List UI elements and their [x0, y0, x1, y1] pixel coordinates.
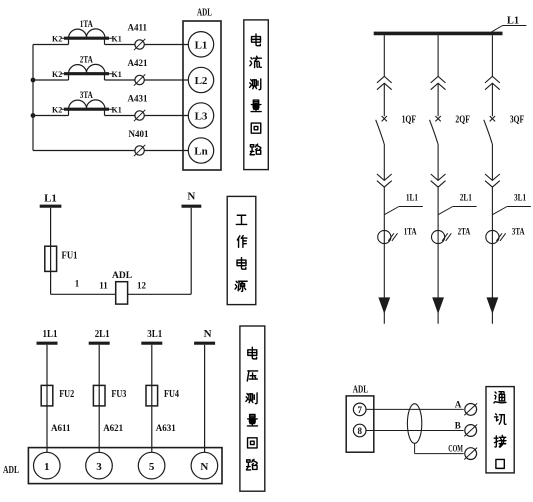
svg-text:2TA: 2TA — [80, 56, 93, 66]
wire A421 — [105, 79, 189, 81]
pin 8 — [353, 424, 366, 437]
svg-text:12: 12 — [137, 281, 147, 291]
svg-text:1TA: 1TA — [404, 227, 417, 237]
svg-text:N: N — [204, 328, 212, 340]
wire N401 — [144, 150, 188, 152]
terminal COM — [464, 448, 477, 460]
svg-text:B: B — [455, 421, 461, 431]
terminal A421 — [134, 74, 145, 85]
svg-text:COM: COM — [448, 444, 463, 454]
svg-text:K2: K2 — [52, 34, 62, 43]
wire feeder 1 upper — [383, 35, 385, 76]
drawout contact (top) feeder 1 — [377, 76, 392, 89]
svg-text:K1: K1 — [112, 34, 122, 43]
svg-text:K1: K1 — [112, 70, 122, 79]
load arrow feeder 2 — [433, 298, 443, 313]
svg-text:L2: L2 — [195, 75, 208, 87]
svg-text:Ln: Ln — [194, 146, 207, 158]
current transformer 1TA — [61, 29, 114, 45]
bus L1 (main) — [374, 32, 503, 36]
svg-text:FU1: FU1 — [62, 251, 78, 262]
svg-text:FU3: FU3 — [111, 389, 126, 400]
caption box: current measurement circuit — [244, 20, 268, 170]
svg-text:L1: L1 — [195, 39, 208, 51]
wire 2TA K2 to common — [33, 79, 69, 81]
wire 1 (bottom horizontal) — [51, 293, 192, 295]
svg-text:2TA: 2TA — [458, 227, 471, 237]
wire feeder 1 to breaker — [383, 83, 385, 116]
wire feeder 1 below breaker — [383, 144, 385, 181]
label L1 (main bus) leader — [492, 16, 527, 32]
svg-text:A631: A631 — [156, 423, 176, 433]
drawout contact (bottom) feeder 3 — [485, 174, 500, 187]
node 1L1 leader — [385, 207, 423, 215]
wire A411 — [105, 44, 189, 46]
svg-text:A611: A611 — [51, 423, 71, 433]
wire feeder 2 to breaker — [437, 83, 439, 116]
terminal 3 (voltage) — [86, 452, 113, 479]
node 2L1 (voltage) — [89, 328, 110, 343]
circuit breaker 3QF — [484, 116, 495, 144]
node N (power) — [182, 191, 202, 207]
svg-text:N: N — [200, 461, 208, 473]
svg-text:3L1: 3L1 — [147, 328, 162, 340]
wire N drop — [204, 345, 206, 453]
fuse FU1 — [45, 246, 57, 271]
svg-text:K2: K2 — [52, 105, 62, 114]
wire 3L1 drop — [151, 345, 153, 453]
svg-text:L3: L3 — [195, 111, 208, 123]
svg-text:7: 7 — [357, 405, 362, 415]
wire feeder 3 upper — [491, 35, 493, 76]
svg-text:1TA: 1TA — [80, 20, 93, 30]
terminal L2 — [188, 67, 213, 92]
svg-text:A621: A621 — [103, 423, 123, 433]
wire 1TA K2 to common — [33, 44, 69, 46]
svg-text:ADL: ADL — [3, 465, 19, 476]
shielded twisted pair — [407, 404, 421, 444]
caption box: communication interface — [486, 387, 514, 473]
current transformer 2TA — [61, 64, 114, 80]
wire N drop — [190, 208, 192, 294]
terminal A411 — [134, 39, 145, 50]
drawout contact (bottom) feeder 2 — [431, 174, 446, 187]
wire feeder 2 upper — [437, 35, 439, 76]
current transformer 3TA — [61, 100, 114, 116]
svg-text:3TA: 3TA — [512, 227, 525, 237]
svg-text:5: 5 — [149, 461, 155, 473]
wire feeder 3 to breaker — [491, 83, 493, 116]
svg-text:L1: L1 — [507, 16, 519, 27]
terminal Ln — [188, 138, 213, 163]
node L1 (power) — [40, 193, 62, 207]
svg-text:K1: K1 — [112, 105, 122, 114]
current transformer 1TA (main) — [378, 230, 398, 243]
svg-text:1L1: 1L1 — [406, 194, 418, 204]
junction row 2 — [31, 78, 36, 83]
wire A (RS485+) — [366, 408, 464, 410]
device ADL comm box — [346, 396, 374, 452]
wire COM (shield drain) — [415, 443, 464, 453]
terminal 1 (voltage) — [34, 452, 61, 479]
svg-text:A: A — [455, 399, 462, 409]
svg-text:3: 3 — [96, 461, 102, 473]
current transformer 2TA (main) — [432, 230, 452, 243]
svg-text:N401: N401 — [129, 129, 149, 139]
terminal A — [464, 403, 477, 415]
svg-text:2L1: 2L1 — [460, 194, 472, 204]
svg-text:1QF: 1QF — [402, 115, 417, 126]
svg-text:3L1: 3L1 — [514, 194, 526, 204]
drawout contact (top) feeder 3 — [485, 76, 500, 89]
terminal L1 — [188, 32, 213, 57]
junction row 3 — [31, 113, 36, 118]
node N (voltage) — [194, 328, 215, 343]
wire B (RS485-) — [366, 430, 464, 432]
wire L1 to FU1 — [50, 208, 52, 294]
wire feeder 2 lower — [437, 187, 439, 324]
wire feeder 2 below breaker — [437, 144, 439, 181]
svg-text:ADL: ADL — [353, 385, 369, 396]
svg-text:K2: K2 — [52, 70, 62, 79]
svg-text:FU2: FU2 — [59, 389, 74, 400]
svg-text:1L1: 1L1 — [43, 328, 58, 340]
terminal A431 — [134, 110, 145, 121]
svg-text:A411: A411 — [128, 23, 148, 33]
terminal 5 (voltage) — [138, 452, 165, 479]
wire feeder 1 lower — [383, 187, 385, 324]
device ADL power terminals — [116, 282, 128, 304]
svg-text:A421: A421 — [128, 58, 148, 68]
fuse FU2 — [41, 385, 53, 406]
node 1L1 (voltage) — [37, 328, 58, 343]
terminal N401 — [134, 145, 145, 156]
caption box: working power — [227, 196, 256, 304]
svg-text:A431: A431 — [128, 94, 148, 104]
terminal N (voltage) — [191, 452, 218, 479]
wire: K2 common return bus (left vertical) — [33, 45, 135, 151]
svg-text:ADL: ADL — [112, 271, 132, 281]
wire 3TA K2 to common — [33, 115, 69, 117]
svg-text:3QF: 3QF — [510, 115, 525, 126]
circuit breaker 1QF — [376, 116, 387, 144]
fuse FU3 — [93, 385, 105, 406]
pin 7 — [353, 403, 366, 416]
meter ADL terminal box (voltage) — [28, 448, 222, 484]
wire 2L1 drop — [98, 345, 100, 453]
node 3L1 (voltage) — [141, 328, 162, 343]
node 3L1 leader — [493, 207, 531, 215]
load arrow feeder 1 — [379, 298, 389, 313]
svg-text:1: 1 — [44, 461, 50, 473]
svg-text:2QF: 2QF — [455, 115, 470, 126]
load arrow feeder 3 — [487, 298, 497, 313]
svg-text:L1: L1 — [44, 193, 57, 205]
meter ADL terminal box (current) — [183, 21, 221, 170]
wire feeder 3 lower — [491, 187, 493, 324]
svg-text:FU4: FU4 — [164, 389, 179, 400]
caption box: voltage measurement circuit — [240, 326, 265, 491]
fuse FU4 — [146, 385, 158, 406]
terminal L3 — [188, 103, 213, 128]
circuit breaker 2QF — [430, 116, 441, 144]
terminal B — [464, 425, 477, 437]
drawout contact (top) feeder 2 — [431, 76, 446, 89]
svg-text:8: 8 — [357, 426, 362, 436]
svg-text:1: 1 — [75, 279, 80, 289]
svg-text:ADL: ADL — [197, 8, 212, 19]
wire 1L1 drop — [46, 345, 48, 453]
wire feeder 3 below breaker — [491, 144, 493, 181]
current transformer 3TA (main) — [486, 230, 506, 243]
wire A431 — [105, 115, 189, 117]
svg-text:11: 11 — [99, 281, 108, 291]
svg-text:2L1: 2L1 — [95, 328, 110, 340]
drawout contact (bottom) feeder 1 — [377, 174, 392, 187]
svg-text:3TA: 3TA — [80, 91, 93, 101]
node 2L1 leader — [438, 207, 476, 215]
svg-text:N: N — [187, 191, 195, 203]
